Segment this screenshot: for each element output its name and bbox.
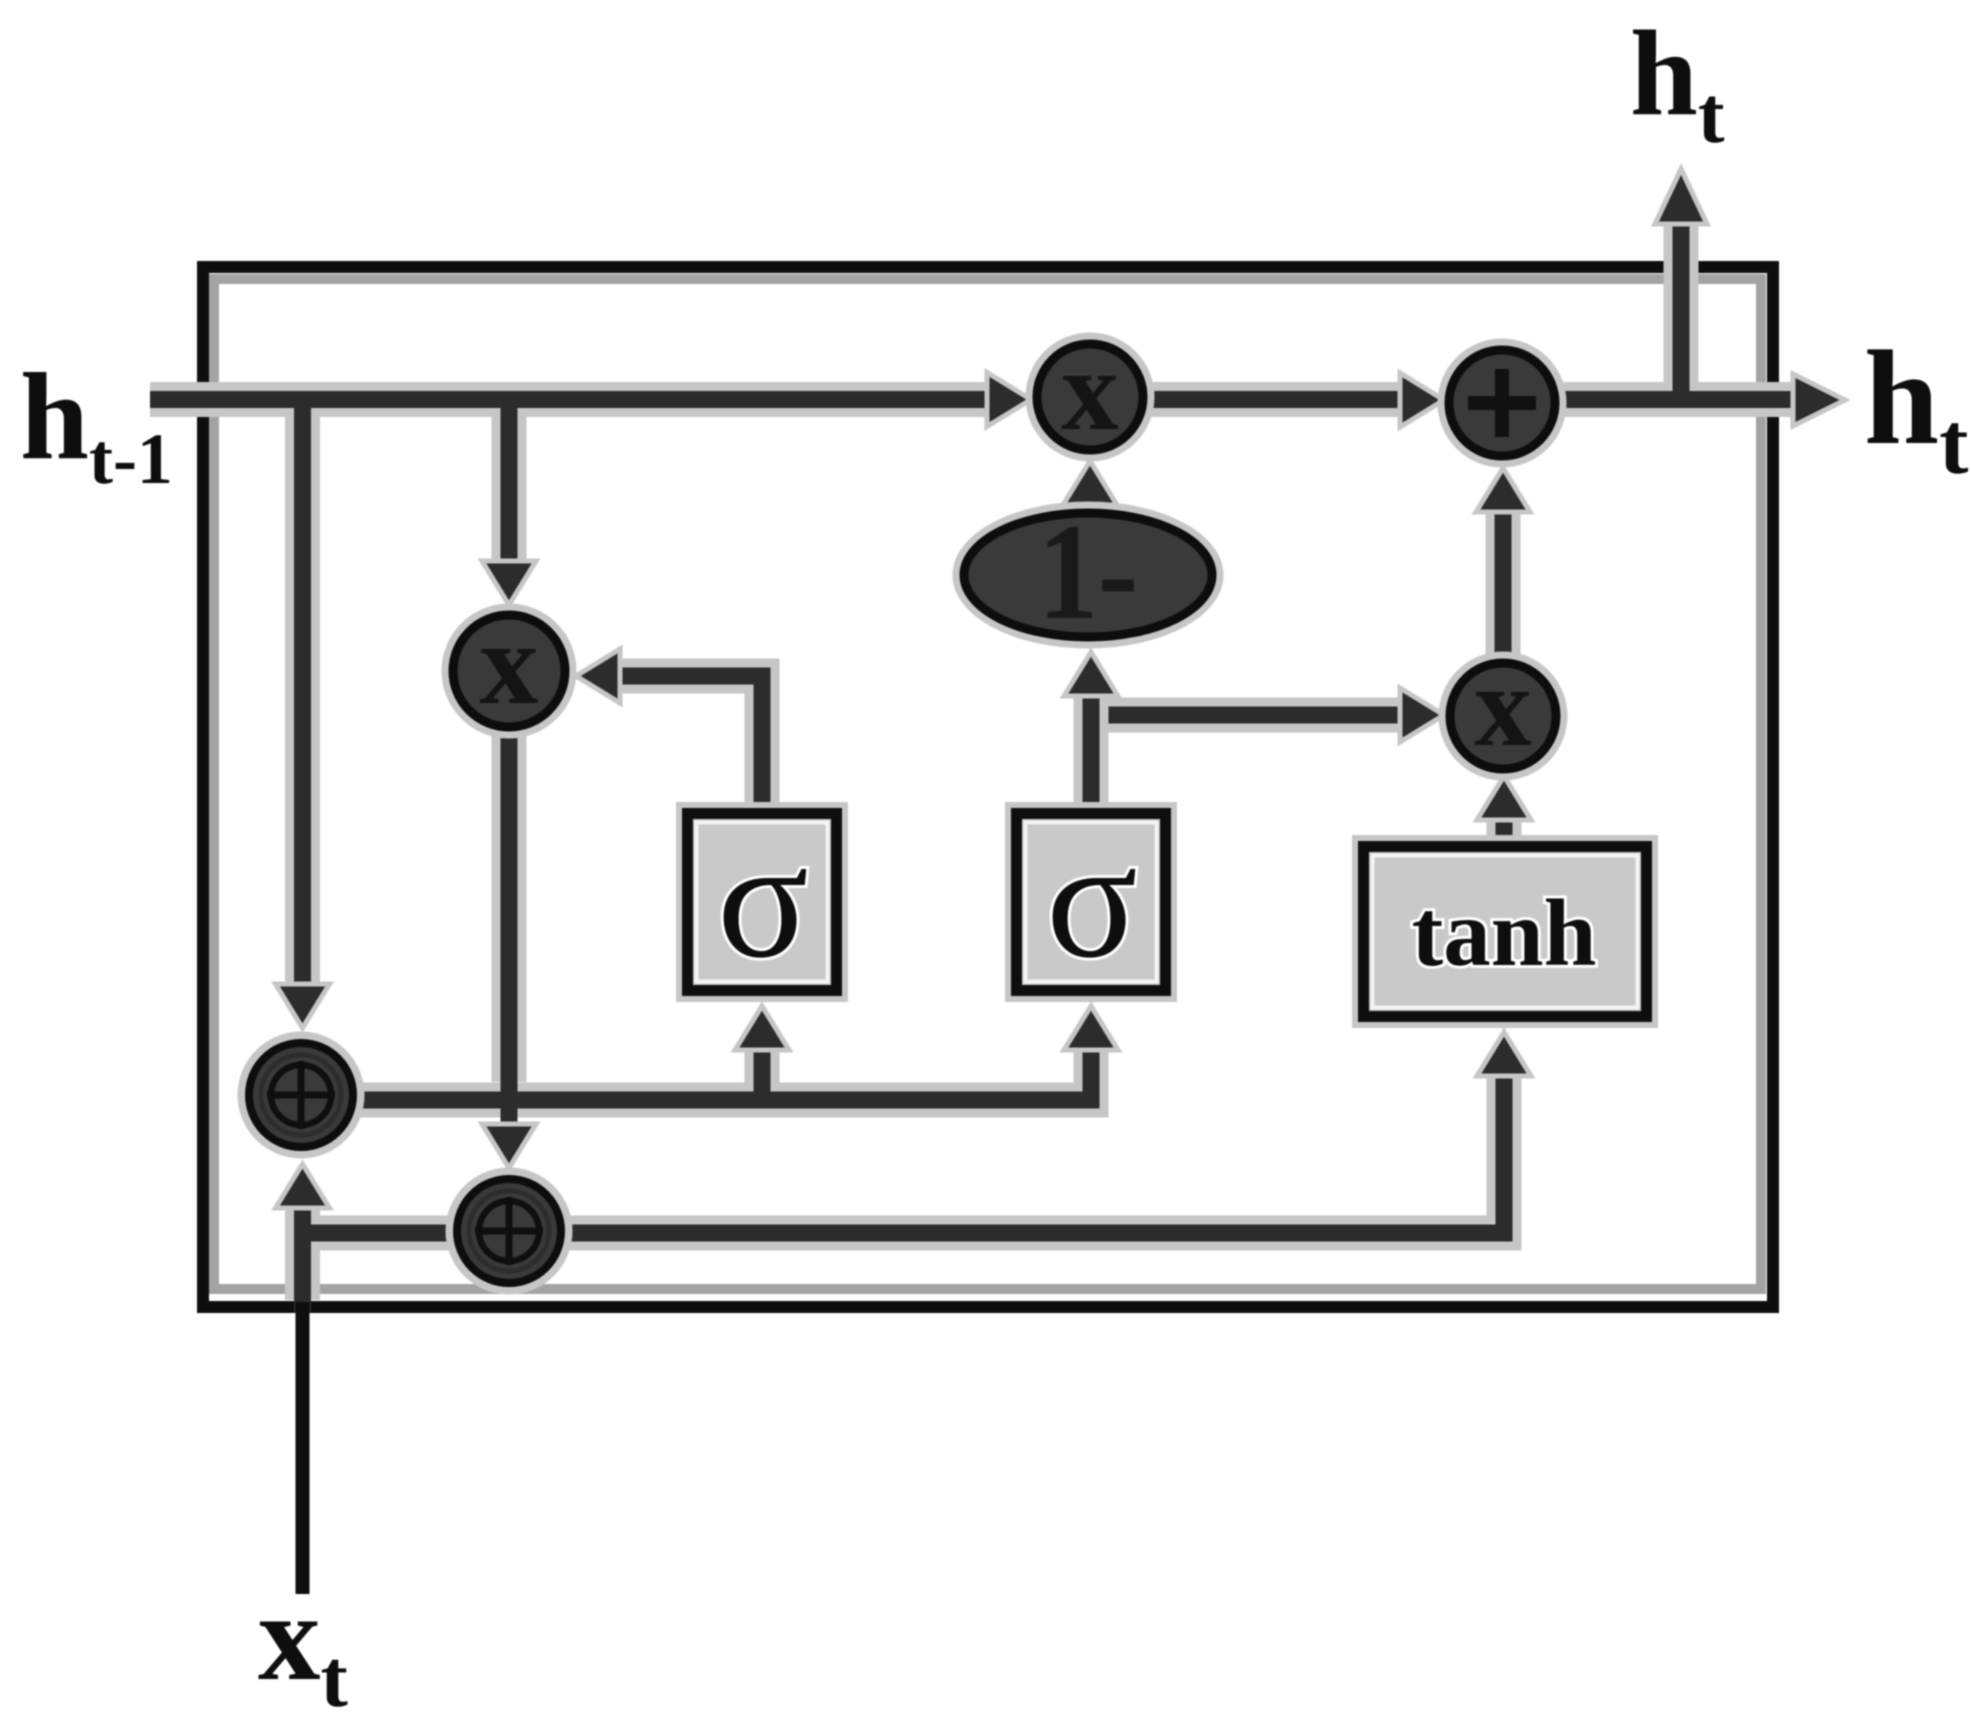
inner gray box — [214, 279, 1761, 1289]
add node (+) — [1442, 343, 1562, 463]
arrowhead into U1 bottom — [1063, 461, 1117, 505]
wire ellipse top to U1 — [1073, 502, 1108, 514]
arrowhead into tanh bottom — [1477, 1032, 1531, 1076]
svg-text:σ: σ — [1046, 805, 1138, 993]
sigma1 gate box — [688, 805, 837, 993]
arrowhead into sigma1 bottom — [735, 1006, 789, 1050]
arrowhead into ellipse bottom — [1064, 652, 1118, 696]
wire xor1 output to sigma gates — [358, 1048, 1091, 1100]
wire h-line (h_t-1 to h_t main path) — [150, 382, 1797, 417]
arrowhead into xor1 top — [276, 984, 330, 1028]
wire M3 to add node — [1486, 510, 1521, 658]
arrowhead h_t right output — [1793, 374, 1845, 426]
multiply node M2 (left x) — [446, 598, 572, 734]
arrowhead into multiply node U1 — [987, 373, 1031, 427]
wire M2 down (upper part) — [492, 726, 527, 1082]
tanh gate box — [1364, 847, 1647, 1017]
wire h_t top output — [1664, 218, 1699, 391]
svg-text:tanh: tanh — [1412, 880, 1597, 986]
arrowhead into M3 bottom — [1477, 776, 1531, 820]
arrowhead h_t top output — [1655, 169, 1707, 224]
arrowhead into add bottom — [1476, 468, 1530, 512]
arrowhead into add node — [1400, 373, 1444, 427]
svg-text:σ: σ — [717, 805, 809, 993]
svg-text:1-: 1- — [1038, 495, 1138, 648]
svg-text:x: x — [1061, 327, 1119, 454]
wire sigma1 top to M2 — [616, 676, 762, 806]
arrowhead into xor1 bottom — [276, 1164, 330, 1208]
wire x_t below box — [296, 1302, 310, 1594]
outer cell box — [203, 267, 1773, 1307]
arrowhead into sigma2 bottom — [1064, 1006, 1118, 1050]
wire xor2-line bridge at x_t junction — [300, 1225, 330, 1242]
arrowhead into M2 top — [482, 561, 536, 605]
multiply node M3 (right x) — [1443, 643, 1563, 776]
wire drop to multiply node M2 — [492, 408, 527, 564]
sigma2 gate box — [1017, 805, 1166, 993]
wire branch to multiply M3 — [1087, 698, 1402, 733]
ellipse 1- node — [957, 495, 1219, 648]
wire M2 down (lower part) and arrowhead into xor2 — [501, 1080, 518, 1127]
arrowhead into M3 left — [1400, 688, 1444, 742]
multiply node U1 (top x) — [1030, 327, 1150, 457]
wire sigma2 top to 1- ellipse — [1074, 698, 1109, 806]
svg-text:x: x — [1474, 643, 1532, 770]
svg-text:x: x — [480, 598, 539, 729]
xor2 node (circled plus, bottom) — [450, 1172, 568, 1290]
xor1 node (circled plus, left) — [242, 1036, 360, 1154]
wire drop to xor1 (left vertical from h-line) — [285, 408, 320, 988]
wire tanh top to M3 — [1487, 818, 1522, 839]
arrowhead into M2 right — [576, 649, 620, 703]
wire x_t inside box — [285, 1202, 320, 1300]
wire xor2 output to tanh — [303, 1074, 1504, 1233]
